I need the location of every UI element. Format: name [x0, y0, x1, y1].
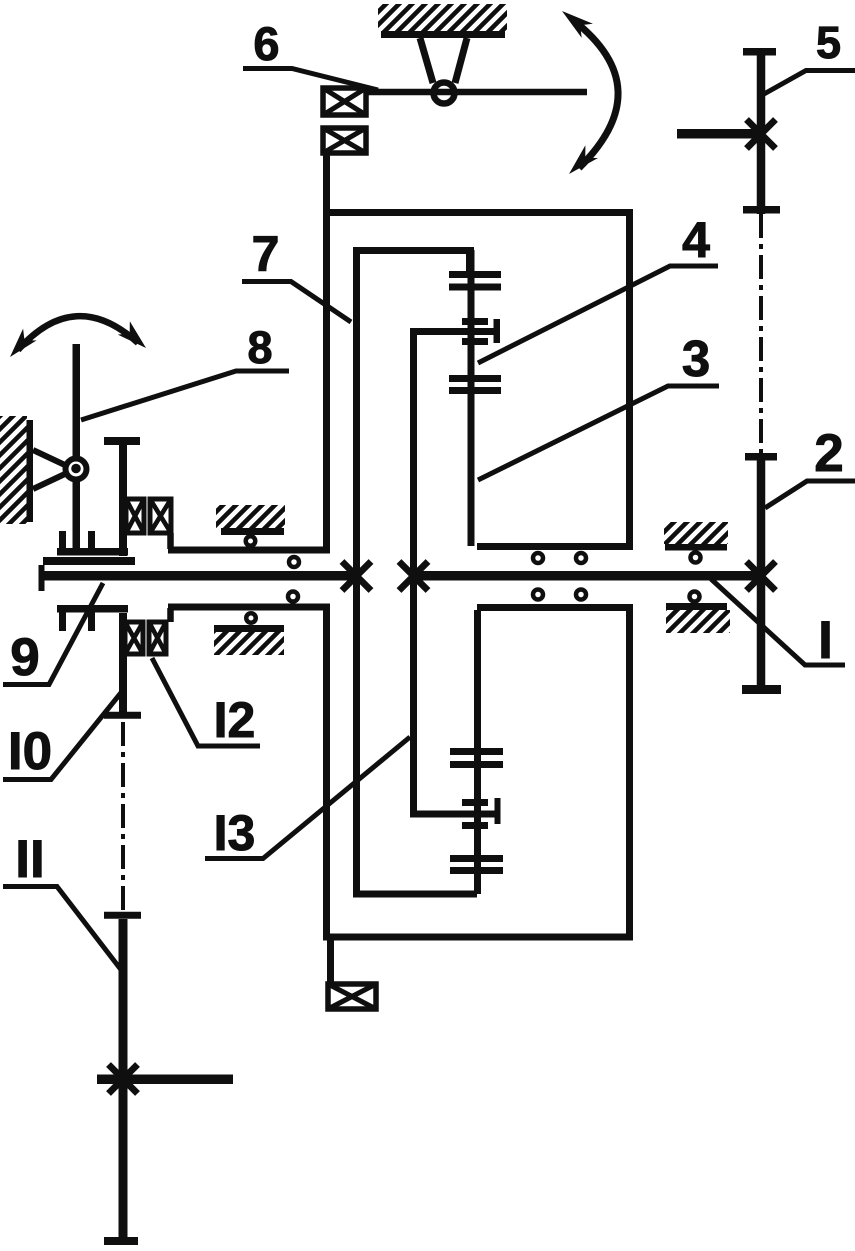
svg-text:I: I	[818, 611, 833, 670]
leader 8	[81, 371, 289, 420]
gear joint cross main shaft & gear block 7	[342, 562, 371, 591]
gear 3 lower rim	[449, 387, 501, 394]
clutch upper half-bar	[462, 318, 488, 325]
left bearing lower A	[125, 622, 143, 654]
gear 4 lower rim	[449, 284, 501, 291]
oscillation arc arrow right	[573, 20, 618, 168]
gear joint cross on shaft 5	[747, 120, 776, 149]
svg-text:9: 9	[10, 628, 39, 687]
shaft 2 solid	[757, 457, 766, 690]
leader 7	[242, 282, 351, 323]
carrier lower half-bar upper	[462, 799, 488, 806]
bearing riser upper	[167, 533, 174, 549]
svg-text:II: II	[15, 830, 44, 889]
svg-text:3: 3	[682, 330, 710, 387]
leader 1	[711, 579, 845, 665]
gear housing right edge upper	[626, 209, 633, 548]
bearing riser lower	[167, 608, 174, 622]
housing inner shelf lower right	[477, 604, 633, 611]
support roller lower left	[246, 613, 256, 623]
clutch lower half-bar	[462, 338, 488, 345]
gear block 7 top edge	[353, 247, 474, 254]
lower gear rim 3	[450, 855, 503, 862]
gear block 7 left wall	[353, 247, 360, 897]
lower gear rim 1	[450, 748, 503, 755]
sleeve bracket lower tick 1	[59, 612, 66, 631]
bearing block B1 on lever shaft	[323, 88, 366, 115]
shaft 5 centerline dash-dot	[759, 214, 763, 453]
wall hatch	[0, 416, 27, 524]
support bar lower right	[666, 603, 727, 610]
shaft 10 tick upper	[104, 712, 141, 719]
svg-text:I0: I0	[8, 722, 52, 781]
gear block 7 bottom edge	[353, 891, 477, 898]
sleeve bracket lower tick 2	[88, 612, 95, 631]
svg-text:4: 4	[682, 212, 710, 268]
gear housing left edge lower	[323, 607, 330, 941]
svg-text:2: 2	[814, 424, 843, 483]
roller inner housing upper 2	[576, 553, 586, 563]
central gear shaft upper	[468, 250, 475, 546]
shifter fork 12 stem	[119, 443, 127, 556]
leader 3	[478, 386, 719, 480]
leader 10	[3, 689, 124, 780]
shift lever 8	[73, 344, 81, 550]
carrier 13 top edge	[410, 328, 499, 335]
sliding sleeve bracket upper bar	[57, 548, 128, 556]
lower gear rim 2	[450, 761, 503, 768]
svg-text:7: 7	[252, 226, 280, 282]
gear housing top edge	[323, 209, 633, 216]
lever pivot circle	[66, 459, 87, 480]
bottom bearing of housing	[328, 984, 376, 1009]
gear joint cross main shaft & carrier 13	[399, 562, 428, 591]
frame line upper left	[168, 547, 330, 554]
main shaft 1 left segment	[41, 571, 359, 581]
wall edge for lever pivot	[27, 420, 34, 522]
leader 2	[765, 481, 855, 508]
pivot triangle upper leg	[33, 450, 67, 466]
roller pair left of housing lower	[288, 592, 298, 602]
gear joint cross on shaft 11	[109, 1065, 138, 1094]
frame line lower left	[168, 604, 330, 611]
lower gear rim 4	[450, 867, 503, 874]
gear line on shaft 5	[677, 129, 757, 139]
gear housing left edge upper	[323, 209, 330, 550]
leader 12	[152, 658, 260, 746]
main shaft right segment	[411, 571, 766, 581]
gear joint cross main shaft & shaft 2	[747, 562, 776, 591]
support roller upper right	[691, 553, 701, 563]
roller inner housing lower 2	[576, 590, 586, 600]
pivot triangle lower leg	[33, 473, 67, 489]
input shaft 5 top cap	[743, 48, 776, 56]
carrier 13 left wall	[410, 328, 417, 814]
central gear shaft lower	[474, 610, 481, 894]
pivot bracket right leg	[455, 38, 467, 83]
support bar lower left	[214, 625, 284, 632]
support bar upper right	[665, 544, 727, 551]
shifter fork 12 cap	[104, 437, 140, 445]
roller inner housing lower 1	[533, 590, 543, 600]
left arc arrowhead left	[10, 329, 37, 357]
fixed frame baseline	[381, 31, 505, 38]
leader 6	[243, 69, 378, 91]
svg-text:8: 8	[247, 322, 272, 373]
left bearing upper A	[126, 499, 144, 533]
shaft 11 lower solid	[119, 919, 128, 1241]
roller inner housing upper 1	[533, 553, 543, 563]
roller pair left of housing upper	[289, 557, 299, 567]
sliding sleeve bracket lower bar	[57, 605, 128, 613]
shaft 2 tick	[745, 453, 777, 461]
svg-text:5: 5	[816, 17, 841, 68]
support hatch lower left	[214, 632, 284, 655]
sleeve bracket upper tick 1	[59, 531, 66, 550]
main shaft left end cap	[39, 565, 45, 591]
lever pivot center dot	[71, 464, 81, 474]
gear block 7 right wall stub	[466, 247, 473, 275]
carrier lower sleeve tick	[495, 798, 501, 824]
oscillation arc arrow left	[18, 316, 138, 350]
link from bearings to gear housing	[323, 153, 330, 215]
left arc arrowhead right	[118, 321, 146, 348]
leader 9	[3, 583, 103, 685]
support hatch upper right	[664, 522, 728, 544]
collar 9 on main shaft	[43, 557, 135, 565]
svg-text:6: 6	[253, 17, 279, 70]
arrowhead top	[562, 11, 593, 38]
support roller upper left	[246, 536, 256, 546]
housing lower stub to bearing	[327, 938, 334, 987]
housing inner shelf upper right	[477, 543, 633, 550]
shaft 10 centerline dash-dot	[121, 722, 125, 912]
lever arm 6	[365, 89, 587, 96]
support hatch lower right	[666, 610, 730, 633]
pivot circle of lever 6	[434, 83, 455, 104]
clutch sleeve tick	[494, 319, 501, 343]
output shaft 10 upper solid	[119, 613, 127, 715]
gear 3 upper rim	[449, 375, 501, 382]
leader 11	[3, 887, 122, 972]
shaft 2 bottom cap	[742, 685, 781, 694]
gear line on shaft 11	[97, 1075, 233, 1085]
leader 13	[205, 737, 410, 859]
gear housing bottom edge	[323, 934, 633, 941]
carrier lower half-bar lower	[462, 822, 488, 829]
pivot bracket left leg	[420, 38, 433, 83]
left bearing upper B	[150, 499, 171, 533]
gear housing right edge lower	[626, 605, 633, 941]
svg-text:I2: I2	[214, 692, 256, 748]
gear 4 upper rim	[449, 271, 501, 278]
bearing block B2 on lever shaft	[323, 128, 366, 153]
shaft 10 tick lower	[104, 912, 141, 919]
leader 5	[764, 71, 855, 95]
support roller lower right	[690, 592, 700, 602]
svg-text:I3: I3	[214, 805, 256, 861]
shaft 11 bottom cap	[104, 1237, 138, 1245]
fixed frame hatch above pivot 6	[378, 4, 507, 31]
sleeve bracket upper tick 2	[88, 531, 95, 550]
left bearing lower B	[149, 622, 166, 654]
carrier 13 bottom edge	[410, 811, 500, 818]
support hatch upper left	[216, 505, 285, 528]
shaft 5 tick upper	[743, 206, 780, 214]
leader 4	[478, 266, 718, 363]
support bar upper left	[221, 528, 284, 535]
input shaft 5 upper solid	[757, 52, 766, 214]
arrowhead bottom	[569, 145, 598, 174]
